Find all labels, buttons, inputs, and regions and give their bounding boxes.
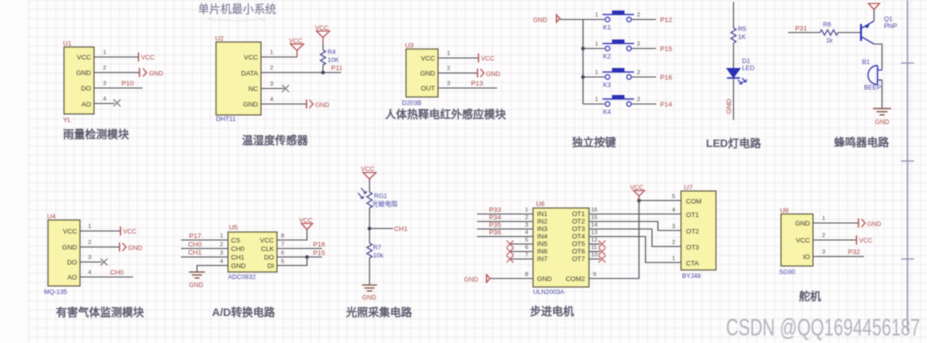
designator U5 (229, 225, 238, 232)
svg-text:OT4: OT4 (572, 234, 585, 241)
designator U4 (47, 214, 56, 221)
svg-text:P15: P15 (660, 46, 672, 53)
module title 光照采集电路 (345, 305, 413, 319)
sheet title 单片机最小系统 (198, 2, 276, 25)
net label P15 (660, 46, 672, 53)
svg-text:8: 8 (281, 234, 284, 240)
designator U8 (780, 208, 789, 215)
svg-text:2: 2 (672, 240, 675, 246)
net label P36 (489, 230, 501, 237)
net label P16 (660, 75, 672, 82)
wire to K1 (583, 13, 605, 20)
wire pin2 VCC (813, 233, 856, 240)
svg-text:GND: GND (362, 295, 377, 302)
svg-text:7: 7 (525, 253, 528, 259)
svg-text:GND: GND (795, 221, 810, 228)
wire pin1 GND (813, 216, 858, 223)
svg-text:GND: GND (76, 70, 91, 77)
svg-text:R5: R5 (738, 26, 747, 33)
net label P33 (489, 207, 501, 214)
net label P14 (660, 102, 672, 109)
svg-text:VCC: VCC (289, 38, 303, 45)
svg-text:CH1: CH1 (231, 255, 245, 262)
LED D1 (727, 58, 755, 84)
svg-text:GND: GND (189, 282, 204, 289)
svg-text:OT5: OT5 (572, 241, 585, 248)
wire pin2 GND (80, 240, 119, 247)
svg-text:OT7: OT7 (572, 256, 585, 263)
svg-text:4: 4 (672, 208, 676, 214)
svg-text:VCC: VCC (77, 55, 91, 62)
svg-text:3: 3 (525, 223, 528, 229)
push button K3 (603, 68, 635, 89)
no-connect cross OT5 (599, 241, 606, 248)
ground earth symbol (873, 109, 891, 127)
wire CH0 pin2 (181, 242, 228, 249)
resistor R5 1K (731, 26, 747, 43)
svg-text:P35: P35 (489, 222, 501, 229)
svg-text:15: 15 (591, 215, 597, 221)
svg-text:NC: NC (248, 86, 258, 93)
ground earth symbol (189, 272, 205, 289)
svg-text:4: 4 (220, 259, 224, 265)
power port VCC top (869, 4, 880, 10)
svg-text:DHT11: DHT11 (216, 116, 236, 123)
wire pin1 VCC (80, 224, 120, 231)
svg-text:13: 13 (591, 230, 597, 236)
svg-text:雨量检测模块: 雨量检测模块 (63, 127, 130, 141)
wire OT2 to connector (589, 215, 681, 231)
svg-text:CTA: CTA (686, 261, 699, 268)
svg-text:U7: U7 (684, 185, 693, 192)
transistor Q1 PNP (861, 16, 897, 44)
sheet border right edge (901, 0, 914, 331)
svg-text:GND: GND (128, 245, 143, 252)
svg-text:CH0: CH0 (188, 242, 202, 249)
svg-text:1: 1 (525, 208, 528, 214)
ground earth symbol (362, 285, 377, 302)
svg-text:Q1: Q1 (884, 16, 893, 23)
no-connect cross IN5 (507, 241, 514, 248)
wire IN7 stub (510, 253, 533, 260)
svg-text:VCC: VCC (141, 55, 155, 62)
svg-text:P15: P15 (313, 250, 325, 257)
svg-text:YL: YL (63, 117, 72, 124)
svg-text:U2: U2 (215, 36, 224, 43)
svg-text:1: 1 (595, 13, 598, 19)
wire pin1 VCC (94, 50, 138, 57)
svg-text:16: 16 (591, 208, 597, 214)
wire pin3 NC (261, 82, 284, 89)
svg-text:COM: COM (686, 199, 702, 206)
svg-text:P11: P11 (331, 65, 343, 72)
watermark (726, 315, 920, 342)
svg-text:U1: U1 (63, 41, 72, 48)
power port GND for keys (533, 14, 560, 24)
svg-text:5: 5 (672, 194, 675, 200)
designator U3 (405, 43, 414, 50)
svg-text:蜂鸣器电路: 蜂鸣器电路 (834, 135, 890, 149)
net label P17 (189, 233, 201, 240)
push button K2 (603, 40, 635, 61)
net label P10 (122, 81, 134, 88)
power port VCC (139, 53, 155, 62)
svg-text:P31: P31 (795, 26, 807, 33)
svg-text:VCC: VCC (859, 238, 873, 245)
svg-text:P32: P32 (848, 249, 860, 256)
wire OT5 stub (589, 238, 600, 245)
module title LED灯电路 (706, 136, 762, 150)
photoresistor RG1 (358, 188, 398, 208)
wire pin1 VCC (438, 51, 478, 58)
svg-text:光敏电阻: 光敏电阻 (372, 199, 398, 208)
svg-text:VCC: VCC (421, 56, 435, 63)
net label P34 (489, 215, 501, 222)
wire pin1 VCC (261, 50, 297, 57)
svg-text:K3: K3 (603, 82, 611, 89)
wire CS pin1 (181, 234, 228, 241)
svg-text:IO: IO (803, 254, 810, 261)
svg-text:3: 3 (822, 250, 825, 256)
svg-text:4: 4 (270, 97, 274, 103)
svg-text:VCC: VCC (299, 218, 313, 225)
rain sensor module U1 (64, 47, 94, 114)
svg-text:2: 2 (220, 242, 223, 248)
svg-text:OT2: OT2 (572, 219, 585, 226)
svg-text:CS: CS (231, 238, 241, 245)
svg-text:2: 2 (637, 42, 640, 48)
wire pin3 DO (80, 255, 102, 262)
wire DO pin6 (277, 251, 322, 258)
designator U6 (536, 201, 545, 208)
net label P32 (848, 249, 860, 256)
svg-text:VCC: VCC (260, 238, 274, 245)
svg-text:VCC: VCC (123, 229, 137, 236)
svg-text:10K: 10K (328, 57, 340, 64)
svg-text:BYJ48: BYJ48 (682, 273, 701, 280)
designator U1 (63, 41, 72, 48)
designator U2 (215, 36, 224, 43)
svg-text:DO: DO (264, 255, 274, 262)
svg-text:1: 1 (595, 42, 598, 48)
svg-text:14: 14 (591, 223, 598, 229)
net label P13 (471, 81, 483, 88)
svg-text:6: 6 (525, 245, 528, 251)
junction VCC COM (637, 199, 641, 203)
net label P31 (795, 26, 807, 33)
wire R6 to base (838, 32, 861, 34)
wire OT1 to connector (589, 208, 681, 215)
module title 温湿度传感器 (242, 133, 309, 147)
svg-text:IN3: IN3 (537, 226, 548, 233)
svg-text:OT6: OT6 (572, 249, 585, 256)
resistor R4 10K (320, 44, 339, 73)
svg-text:IN7: IN7 (537, 256, 548, 263)
svg-text:VCC: VCC (315, 25, 329, 32)
power port VCC (630, 185, 645, 201)
power port VCC above R4 (315, 25, 330, 44)
svg-text:10: 10 (591, 253, 597, 259)
wire COM to connector (639, 194, 681, 201)
wire OT3 to connector (589, 223, 681, 247)
svg-text:1: 1 (822, 216, 825, 222)
svg-text:人体热释电红外感应模块: 人体热释电红外感应模块 (385, 107, 507, 121)
svg-text:ULN2003A: ULN2003A (533, 289, 565, 296)
svg-text:P36: P36 (489, 230, 501, 237)
module title 有害气体监测模块 (56, 305, 145, 319)
wire LED to bottom (733, 78, 735, 120)
svg-text:1: 1 (672, 256, 675, 262)
no-connect cross OT6 (599, 248, 606, 255)
svg-text:4: 4 (103, 97, 107, 103)
part name BYJ48 (682, 273, 701, 280)
svg-text:1: 1 (447, 51, 450, 57)
svg-text:OT3: OT3 (572, 226, 585, 233)
svg-text:GND: GND (875, 119, 890, 126)
wire pin2 GND (438, 66, 477, 73)
svg-text:2: 2 (637, 13, 640, 19)
part name DHT11 (216, 116, 236, 123)
svg-text:8: 8 (525, 272, 528, 278)
wire pin4 GND (261, 97, 306, 104)
svg-text:CLK: CLK (261, 246, 275, 253)
wire GND pin8 (489, 272, 533, 279)
svg-text:步进电机: 步进电机 (530, 304, 574, 318)
gas sensor module U4 MQ-135 (48, 220, 80, 286)
module title 蜂鸣器电路 (834, 135, 890, 149)
svg-text:P16: P16 (313, 242, 325, 249)
svg-text:K1: K1 (603, 25, 611, 32)
module title 独立按键 (571, 135, 617, 149)
wire emitter to VCC (873, 10, 875, 21)
wire junction to CH1 label (370, 228, 394, 230)
svg-text:CH1: CH1 (188, 250, 202, 257)
svg-text:3: 3 (672, 224, 675, 230)
svg-text:B1: B1 (862, 59, 870, 66)
svg-text:K2: K2 (603, 54, 611, 61)
svg-text:3: 3 (270, 82, 273, 88)
junction (321, 71, 325, 75)
net label P35 (489, 222, 501, 229)
push button K1 (603, 11, 635, 32)
svg-text:2: 2 (525, 215, 528, 221)
svg-text:光照采集电路: 光照采集电路 (345, 305, 413, 319)
svg-text:GND: GND (420, 71, 435, 78)
stepper driver U6 ULN2003A (533, 208, 589, 287)
svg-text:1: 1 (103, 50, 106, 56)
svg-text:PNP: PNP (884, 23, 897, 30)
svg-text:温湿度传感器: 温湿度传感器 (242, 133, 309, 147)
wire K3 to label (632, 70, 657, 77)
power port VCC light circuit (361, 166, 376, 192)
svg-text:舵机: 舵机 (799, 289, 821, 303)
svg-text:P33: P33 (489, 207, 501, 214)
wire pin3 DO (94, 81, 143, 88)
svg-text:R4: R4 (328, 49, 337, 56)
svg-text:VCC: VCC (796, 238, 810, 245)
wire K4 to label (632, 97, 657, 104)
svg-text:9: 9 (593, 272, 596, 278)
svg-text:P14: P14 (660, 102, 672, 109)
svg-text:3: 3 (447, 81, 450, 87)
net label CH1 (394, 226, 408, 233)
svg-text:GND: GND (867, 221, 882, 228)
svg-text:AO: AO (81, 102, 91, 109)
part name MQ-135 (44, 289, 68, 296)
svg-text:OT3: OT3 (686, 245, 699, 252)
svg-text:GND: GND (464, 277, 479, 284)
wire collector to buzzer (874, 44, 882, 70)
resistor R7 10k (367, 243, 384, 260)
svg-text:A/D转换电路: A/D转换电路 (212, 305, 276, 319)
wire to K3 (583, 70, 605, 77)
svg-text:2: 2 (270, 66, 273, 72)
wire VCC pin8 (277, 230, 307, 241)
servo module U8 SG90 (781, 214, 813, 266)
wire GND pin4 (197, 259, 228, 272)
resistor R6 1K (820, 22, 838, 45)
svg-text:D203B: D203B (402, 100, 422, 107)
push button K4 (603, 95, 635, 116)
AD converter U5 ADC0832 (228, 232, 277, 272)
wire key bus vertical (582, 20, 584, 105)
svg-text:3: 3 (88, 255, 91, 261)
wire K2 to label (632, 42, 657, 49)
no-connect cross OT7 (599, 256, 606, 263)
wire OT6 stub (589, 245, 600, 252)
svg-text:LED灯电路: LED灯电路 (706, 136, 762, 150)
svg-text:P16: P16 (660, 75, 672, 82)
svg-text:GND: GND (62, 245, 77, 252)
power port GND (120, 243, 143, 253)
svg-text:GND: GND (486, 71, 501, 78)
svg-text:U5: U5 (229, 225, 238, 232)
module title 舵机 (799, 289, 821, 303)
svg-text:CH1: CH1 (394, 226, 408, 233)
module title 步进电机 (530, 304, 574, 318)
svg-text:DI: DI (267, 263, 274, 270)
svg-text:OT1: OT1 (572, 211, 585, 218)
svg-text:3: 3 (220, 251, 223, 257)
svg-text:IN6: IN6 (537, 249, 548, 256)
part name ADC0832 (228, 274, 256, 281)
net label P12 (660, 17, 672, 24)
net label CH0 (110, 270, 124, 277)
svg-text:GND: GND (726, 99, 733, 114)
no-connect cross IN6 (507, 248, 514, 255)
svg-text:2: 2 (447, 66, 450, 72)
wire LED top (733, 2, 735, 28)
svg-text:OT2: OT2 (686, 229, 699, 236)
part name YL (63, 117, 72, 124)
wire GND to bus (560, 19, 583, 21)
svg-text:GND: GND (231, 263, 246, 270)
svg-text:ADC0832: ADC0832 (228, 274, 256, 281)
svg-text:DO: DO (81, 86, 91, 93)
svg-text:AO: AO (67, 275, 77, 282)
svg-text:有害气体监测模块: 有害气体监测模块 (56, 305, 145, 319)
wire pin3 IO (813, 250, 864, 257)
power port VCC arrow (289, 38, 304, 57)
wire pin2 DATA (261, 66, 341, 73)
svg-text:2: 2 (103, 66, 106, 72)
power port GND (859, 219, 882, 229)
svg-text:12: 12 (591, 238, 597, 244)
svg-text:IN4: IN4 (537, 234, 548, 241)
svg-text:CSDN @QQ1694456187: CSDN @QQ1694456187 (726, 315, 920, 342)
svg-text:U4: U4 (47, 214, 56, 221)
svg-text:10k: 10k (373, 253, 384, 260)
svg-text:1: 1 (88, 224, 91, 230)
net label P15 (313, 250, 325, 257)
svg-text:P10: P10 (122, 81, 134, 88)
wire to K4 (583, 97, 605, 104)
wire OT7 stub (589, 253, 600, 260)
svg-text:U3: U3 (405, 43, 414, 50)
svg-text:〜──―──〜: 〜──―──〜 (207, 15, 267, 25)
svg-text:P12: P12 (660, 17, 672, 24)
svg-text:1k: 1k (826, 38, 834, 45)
wire CH1 pin3 (181, 251, 228, 258)
svg-text:BEEP: BEEP (864, 85, 881, 92)
svg-text:单片机最小系统: 单片机最小系统 (198, 2, 276, 16)
svg-text:VCC: VCC (244, 55, 258, 62)
power port GND (478, 69, 501, 79)
svg-text:U8: U8 (780, 208, 789, 215)
pin numbers connector (672, 208, 676, 263)
svg-text:IN2: IN2 (537, 219, 548, 226)
svg-text:VCC: VCC (63, 229, 77, 236)
module title 雨量检测模块 (63, 127, 130, 141)
net label P16 (313, 242, 325, 249)
svg-text:K4: K4 (603, 109, 611, 116)
wire DI pin5 (277, 257, 307, 266)
svg-text:DO: DO (67, 260, 77, 267)
wire IN5 stub (510, 238, 533, 245)
svg-text:4: 4 (525, 230, 529, 236)
part name SG90 (779, 269, 796, 276)
svg-text:CH0: CH0 (110, 270, 124, 277)
module title 人体热释电红外感应模块 (385, 107, 507, 121)
svg-text:P34: P34 (489, 215, 501, 222)
svg-text:2: 2 (637, 70, 640, 76)
svg-text:U6: U6 (536, 201, 545, 208)
svg-text:OUT: OUT (421, 86, 435, 93)
svg-text:MQ-135: MQ-135 (44, 289, 68, 296)
wire IN6 stub (510, 245, 533, 252)
power port VCC (479, 54, 495, 63)
svg-text:GND: GND (149, 71, 164, 78)
wire K1 to label (632, 13, 657, 20)
wire buzzer to ground (881, 80, 883, 108)
svg-text:1: 1 (595, 97, 598, 103)
module title A/D转换电路 (212, 305, 276, 319)
wire pin3 OUT (438, 81, 497, 88)
wire IN2 (477, 215, 533, 222)
junction bus row2 (581, 47, 585, 51)
net label P11 (331, 65, 343, 72)
part name D203B (402, 100, 422, 107)
junction DO-DI (305, 255, 309, 259)
motor connector U7 (681, 191, 716, 270)
no-connect cross DO (101, 259, 108, 266)
power port VCC (857, 236, 873, 245)
svg-text:1: 1 (270, 50, 273, 56)
svg-text:DATA: DATA (241, 71, 258, 78)
svg-text:CH0: CH0 (231, 246, 245, 253)
svg-text:3: 3 (103, 81, 106, 87)
temperature humidity sensor U2 DHT11 (216, 42, 261, 115)
